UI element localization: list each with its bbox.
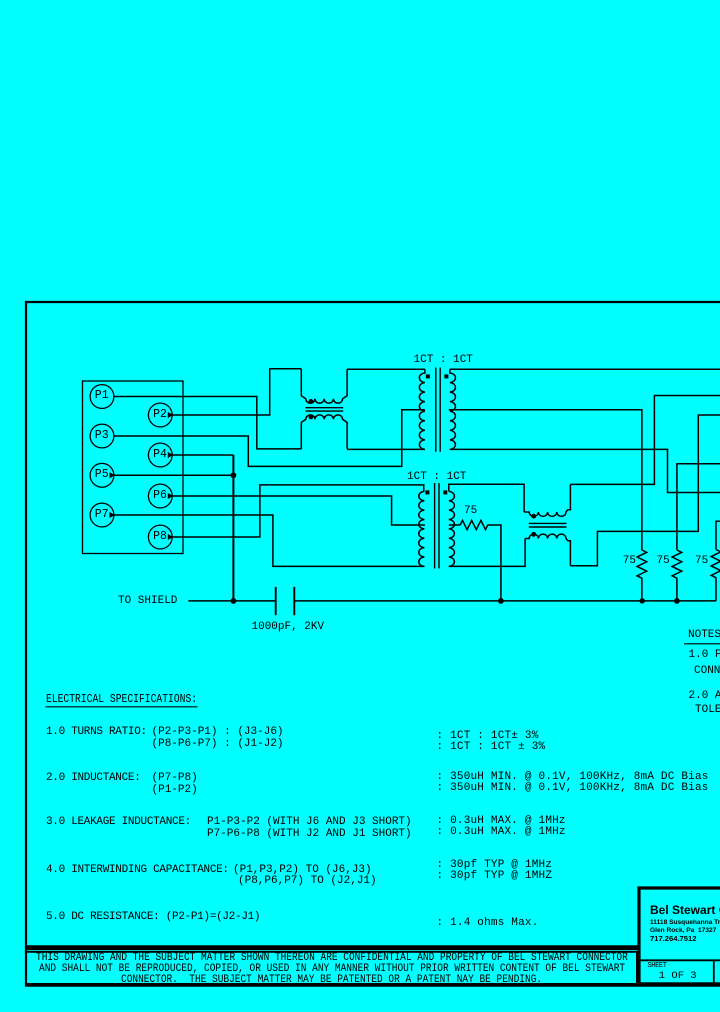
schematic area bottom heavy bar — [25, 945, 641, 950]
choke T4 phase dot lower — [531, 532, 536, 537]
wire P3 to T2 primary center tap — [114, 410, 425, 467]
pin P1 — [90, 385, 114, 409]
junction P5-shield — [231, 472, 237, 478]
notes heading — [688, 630, 720, 641]
drawing border frame — [26, 302, 720, 986]
transformer T3 phase dot primary — [425, 490, 429, 494]
wire P2 to T1 upper winding — [172, 369, 301, 415]
title block address — [650, 919, 720, 936]
wire T1 lower to T2 primary bottom — [347, 448, 425, 450]
resistor R2 75 ohm — [637, 550, 647, 601]
pin label P4 — [153, 449, 167, 461]
junction R2-ground — [640, 598, 645, 603]
wire T2 secondary top to J side — [450, 368, 720, 370]
resistor R3 75 ohm feed wire — [677, 464, 720, 550]
title block bottom bar — [639, 982, 720, 985]
label T2 ratio 1CT : 1CT — [414, 355, 473, 366]
wire P6 to T3 primary center tap — [172, 496, 425, 525]
pin P4 — [148, 443, 172, 467]
choke T4 upper winding — [524, 484, 570, 516]
transformer T2 secondary winding — [450, 369, 456, 449]
confidential note box — [26, 952, 637, 984]
wire P7 to T3 primary bottom — [114, 515, 425, 566]
transformer T2 phase dot secondary — [444, 374, 448, 378]
choke T1 lower winding — [301, 415, 347, 449]
transformer T3 secondary winding — [449, 491, 455, 566]
junction shield stem-ground — [231, 598, 237, 604]
transformer T2 primary winding — [419, 369, 425, 449]
pin P3 — [90, 424, 114, 448]
title block sheet divider — [641, 959, 720, 961]
junction R1-ground — [498, 598, 504, 604]
pin label P8 — [153, 531, 167, 543]
pin label P1 — [95, 390, 109, 402]
label R1 value 75 — [464, 506, 477, 517]
wire T3 secondary bottom to choke T4 lower — [449, 539, 525, 567]
wire choke T4 lower to J side — [571, 415, 720, 566]
transformer T3 core — [434, 483, 436, 569]
pin P6 — [148, 484, 172, 508]
label TO SHIELD — [118, 596, 177, 607]
pin label P2 — [153, 409, 167, 421]
resistor R1 75 ohm — [460, 520, 501, 601]
wire T3 secondary top to choke T4 upper — [449, 484, 524, 512]
electrical specifications heading — [46, 693, 197, 705]
resistor R4 75 ohm — [711, 550, 720, 601]
title block outer border — [639, 888, 720, 985]
wire P1 to T1 lower winding — [114, 397, 301, 449]
junction R3-ground — [674, 598, 680, 604]
choke T4 lower winding — [525, 534, 570, 566]
connector box P1-P8 — [83, 381, 184, 554]
pin P5 — [90, 463, 114, 487]
pin label P3 — [95, 430, 109, 442]
choke T4 phase dot upper — [531, 514, 536, 519]
resistor R4 75 ohm feed wire — [716, 521, 720, 549]
electrical specifications text — [46, 727, 147, 738]
wire T3 secondary center tap to resistor R1 — [449, 524, 460, 526]
ground bus wire — [294, 600, 716, 602]
wire T2 secondary bottom to J side — [450, 449, 720, 492]
pin P7 — [90, 503, 114, 527]
notes heading underline — [684, 643, 720, 645]
pin P2 — [148, 403, 172, 427]
capacitor C1 1000pF plates — [275, 587, 277, 615]
choke T1 phase dot lower — [309, 415, 314, 420]
wire choke T4 upper to J side — [571, 396, 720, 485]
transformer T3 phase dot secondary — [443, 490, 447, 494]
choke T1 core — [306, 407, 344, 409]
wire TO SHIELD to capacitor C1 — [188, 600, 275, 602]
title block sheet cell divider — [713, 960, 715, 983]
shield stem wire — [232, 455, 234, 601]
label R3 value 75 — [657, 556, 670, 567]
label R4 value 75 — [695, 556, 708, 567]
wire P8 to T3 primary top — [172, 485, 424, 537]
label R2 value 75 — [623, 556, 636, 567]
pin label P7 — [95, 509, 109, 521]
choke T1 upper winding — [301, 369, 347, 403]
title block sheet number — [659, 971, 697, 982]
pin label P6 — [153, 490, 167, 502]
label C1 value 1000pF, 2KV — [252, 622, 325, 633]
wire P4 to shield — [172, 454, 233, 456]
resistor R3 75 ohm — [672, 550, 682, 601]
transformer T2 phase dot primary — [426, 374, 430, 378]
wire P5 to shield — [114, 474, 233, 476]
pin label P5 — [95, 469, 109, 481]
electrical specifications heading underline — [46, 706, 198, 708]
transformer T3 primary winding — [419, 491, 425, 566]
transformer T2 core — [435, 368, 437, 452]
pin P8 — [148, 525, 172, 549]
title block company name — [650, 904, 720, 916]
confidential note text — [36, 953, 628, 964]
wire T2 secondary center tap to resistor R2 — [449, 410, 642, 550]
title block sheet label — [648, 963, 667, 970]
label T3 ratio 1CT : 1CT — [407, 472, 466, 483]
wire T1 upper to T2 primary top — [347, 368, 425, 370]
choke T1 phase dot upper — [309, 399, 314, 404]
drawing border bottom — [25, 985, 720, 987]
choke T4 core — [529, 522, 567, 524]
